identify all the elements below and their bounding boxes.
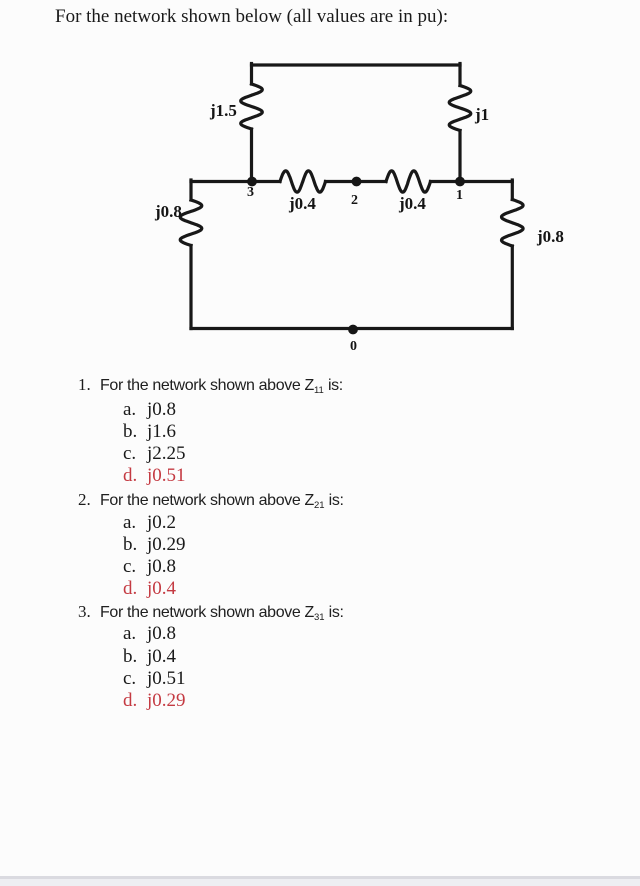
wire j1.5 to node 3: [250, 129, 253, 182]
label j1.5: [210, 102, 237, 119]
inductor j1: [449, 86, 471, 131]
node 3 junction dot: [247, 177, 257, 187]
wire top horizontal: [252, 63, 461, 66]
inductor j0.8 left: [180, 200, 202, 246]
label j0.8 right: [537, 228, 564, 245]
wire middle right segment: [431, 180, 513, 183]
inductor j0.4 right: [386, 171, 431, 192]
label node 3: [247, 186, 254, 200]
wire left branch upper: [189, 180, 192, 200]
node 2 junction dot: [352, 177, 362, 187]
wire j1 to node 1: [458, 131, 461, 182]
node 0 junction dot: [348, 325, 358, 335]
wire top-left vertical stub: [250, 64, 253, 85]
label j1: [475, 106, 489, 123]
inductor j1.5: [241, 84, 263, 129]
label j0.4 left: [289, 195, 316, 212]
wire middle left segment: [191, 180, 280, 183]
bottom grey bar: [0, 876, 640, 886]
wire right branch lower: [511, 246, 514, 329]
wire node 2 segment: [326, 180, 387, 183]
title: [55, 6, 448, 27]
label node 1: [456, 189, 463, 203]
label node 0: [350, 340, 357, 354]
wire left branch lower: [189, 246, 192, 329]
wire bottom horizontal: [191, 327, 512, 330]
wire top-right vertical stub: [458, 64, 461, 86]
inductor j0.8 right: [502, 200, 524, 247]
label node 2: [351, 194, 358, 208]
wire right branch upper: [511, 180, 514, 200]
node 1 junction dot: [455, 177, 465, 187]
label j0.8 left: [155, 203, 182, 220]
label j0.4 right: [399, 195, 426, 212]
inductor j0.4 left: [280, 171, 326, 192]
